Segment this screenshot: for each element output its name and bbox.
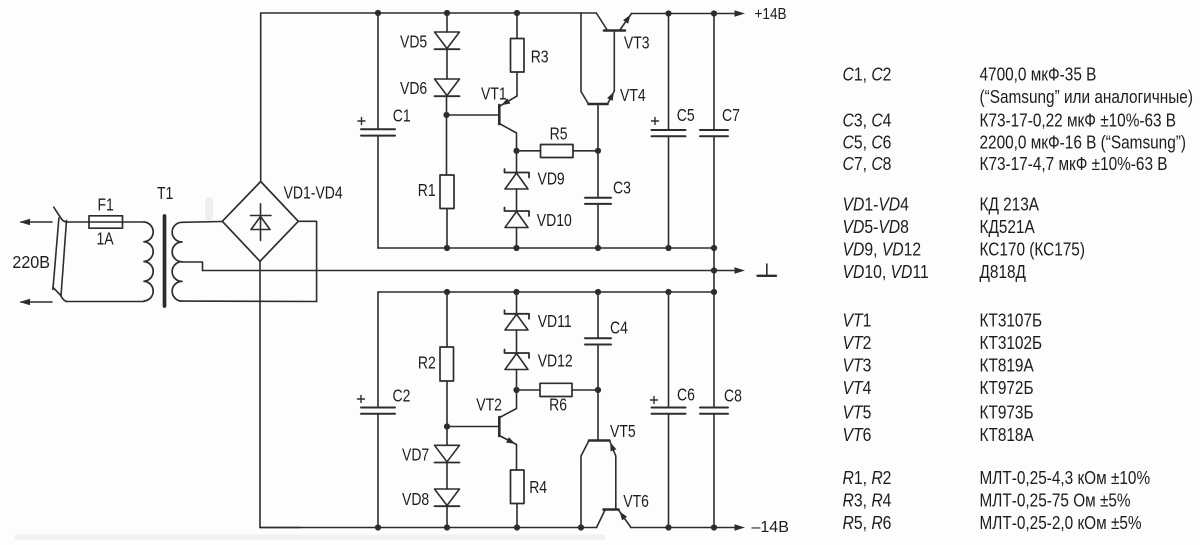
svg-text:F1: F1 — [98, 196, 114, 215]
wire link rail to mid rail — [713, 248, 715, 292]
svg-text:VT3: VT3 — [843, 354, 872, 376]
label VD7 — [402, 446, 429, 465]
node C2 bottom rail — [375, 524, 381, 530]
label VD5 — [400, 33, 427, 52]
diode VD7 — [435, 427, 460, 490]
svg-text:VD10: VD10 — [537, 212, 572, 231]
svg-text:VT5: VT5 — [843, 401, 872, 423]
label 1A — [97, 230, 114, 249]
svg-text:VD6: VD6 — [400, 80, 427, 99]
svg-text:(“Samsung” или аналогичные): (“Samsung” или аналогичные) — [980, 87, 1193, 108]
diode VD8 — [435, 489, 460, 528]
node C8 top rail — [711, 289, 717, 295]
svg-text:2200,0 мкФ-16 В (“Samsung”): 2200,0 мкФ-16 В (“Samsung”) — [980, 132, 1186, 153]
svg-text:R3, R4: R3, R4 — [843, 489, 892, 511]
transistor VT2 — [447, 390, 517, 470]
mains plug socket top contact — [54, 207, 67, 222]
resistor R3 — [511, 13, 525, 96]
resistor R2 — [440, 292, 454, 427]
label VT4 — [620, 87, 646, 106]
svg-text:МЛТ-0,25-75 Ом ±5%: МЛТ-0,25-75 Ом ±5% — [980, 490, 1131, 511]
wire bridge right corner to secondary bottom — [298, 221, 316, 301]
node C4 top rail — [595, 289, 601, 295]
label R2 — [418, 354, 436, 373]
mains plug pin bottom arrow — [20, 299, 53, 305]
label VD9 — [538, 170, 565, 189]
transistor VT4 — [581, 13, 614, 151]
node R6 right / C4 bottom / VT5 base — [595, 387, 601, 393]
label VT1 — [481, 85, 507, 104]
wire plug to fuse — [66, 221, 89, 223]
svg-text:КТ972Б: КТ972Б — [980, 378, 1034, 399]
capacitor C8 — [700, 292, 728, 528]
svg-text:VD7: VD7 — [402, 446, 429, 465]
mains plug socket bottom contact — [53, 287, 67, 301]
mains plug body line right — [61, 221, 67, 297]
label VT2 — [476, 396, 502, 415]
svg-text:R1: R1 — [418, 182, 436, 201]
capacitor C2 — [358, 292, 396, 528]
svg-text:VT4: VT4 — [843, 377, 872, 399]
output arrow -14V — [735, 524, 746, 530]
svg-text:КС170 (КС175): КС170 (КС175) — [980, 239, 1085, 260]
zener VD12 — [505, 350, 530, 391]
svg-text:КТ819А: КТ819А — [980, 355, 1035, 376]
svg-text:VT1: VT1 — [843, 309, 872, 331]
parts list value column — [980, 64, 1193, 533]
wire mid rail common — [203, 270, 738, 272]
svg-text:VD12: VD12 — [538, 352, 573, 371]
fuse F1 — [89, 216, 123, 228]
parts list designator column — [843, 63, 929, 533]
label 220V input — [12, 252, 50, 272]
svg-text:VD10, VD11: VD10, VD11 — [843, 261, 929, 283]
svg-text:С8: С8 — [724, 387, 742, 406]
wire fuse to primary — [123, 221, 145, 223]
node VT1 collector / R5 left / VD9 top — [513, 148, 519, 154]
svg-text:VD8: VD8 — [402, 491, 429, 510]
wire secondary center tap — [182, 262, 203, 271]
label C4 — [610, 319, 628, 338]
node VT1 base / R1 top — [443, 112, 449, 118]
transistor VT6 — [597, 510, 632, 528]
svg-text:Т1: Т1 — [157, 185, 173, 204]
node C5 top — [665, 10, 671, 16]
resistor R5 — [517, 145, 599, 158]
label C6 — [677, 386, 695, 405]
resistor R4 — [511, 470, 525, 528]
node VD12 bottom / R6 left / VT2 collector — [513, 387, 519, 393]
label R4 — [529, 479, 547, 498]
label VD6 — [400, 80, 427, 99]
svg-text:С5: С5 — [677, 107, 695, 126]
svg-text:1А: 1А — [97, 230, 114, 249]
node C8 bottom rail — [711, 524, 717, 530]
svg-text:VD1-VD4: VD1-VD4 — [284, 184, 343, 203]
capacitor C6 — [651, 292, 686, 528]
svg-text:МЛТ-0,25-4,3 кОм ±10%: МЛТ-0,25-4,3 кОм ±10% — [980, 468, 1151, 489]
svg-text:R4: R4 — [529, 479, 547, 498]
label C2 — [393, 387, 411, 406]
svg-text:VT4: VT4 — [620, 87, 646, 106]
label -14V — [752, 519, 789, 536]
bridge rectifier VD1-VD4 diamond — [222, 182, 298, 262]
svg-text:VT6: VT6 — [623, 493, 649, 512]
svg-text:R3: R3 — [531, 48, 549, 67]
transformer T1 secondary winding — [172, 222, 182, 301]
label C3 — [613, 179, 631, 198]
node C5 bottom rail — [665, 245, 671, 251]
label R6 — [549, 396, 567, 415]
label VD8 — [402, 491, 429, 510]
svg-text:VD9, VD12: VD9, VD12 — [843, 238, 922, 260]
svg-text:VD5: VD5 — [400, 33, 427, 52]
svg-text:C5, C6: C5, C6 — [843, 131, 892, 153]
node VD11 top rail — [513, 289, 519, 295]
svg-text:220В: 220В — [12, 252, 50, 272]
svg-text:КД 213А: КД 213А — [980, 194, 1040, 215]
label +14V — [755, 6, 787, 23]
svg-text:С7: С7 — [722, 107, 740, 126]
transistor VT5 — [581, 390, 616, 528]
wire plug to primary bottom — [66, 301, 144, 303]
node mid rail C7 column — [711, 267, 717, 273]
wire top raw rail — [261, 12, 597, 14]
node C7 top — [711, 10, 717, 16]
node R1 bottom rail — [444, 245, 450, 251]
label C5 — [677, 107, 695, 126]
label VD1-VD4 — [284, 184, 343, 203]
node VT5 collector rail — [578, 524, 584, 530]
wire upper block bottom rail — [378, 247, 714, 249]
label VD10 — [537, 212, 572, 231]
svg-text:С2: С2 — [393, 387, 411, 406]
svg-text:VD9: VD9 — [538, 170, 565, 189]
wire lower block top rail — [378, 291, 714, 293]
svg-text:VT2: VT2 — [843, 332, 872, 354]
svg-text:+14В: +14В — [755, 6, 787, 23]
svg-text:С3: С3 — [613, 179, 631, 198]
svg-text:КТ3107Б: КТ3107Б — [980, 310, 1043, 331]
svg-text:R1, R2: R1, R2 — [843, 467, 892, 489]
label R5 — [550, 125, 568, 144]
label R1 — [418, 182, 436, 201]
capacitor C1 — [358, 13, 395, 248]
transistor VT1 — [447, 96, 518, 151]
transistor VT3 — [596, 13, 631, 91]
svg-text:R6: R6 — [549, 396, 567, 415]
transformer T1 core — [163, 216, 167, 306]
wire secondary top lead to bridge — [182, 221, 222, 224]
svg-text:КТ973Б: КТ973Б — [980, 402, 1034, 423]
output arrow +14V — [735, 10, 746, 16]
label F1 — [98, 196, 114, 215]
diode VD5 — [435, 13, 460, 79]
node R5 right / VT4 base / C3 top — [595, 148, 601, 154]
capacitor C3 — [585, 151, 611, 248]
mains plug pin top arrow — [20, 219, 53, 225]
node R2 top rail — [444, 289, 450, 295]
svg-text:К73-17-0,22 мкФ ±10%-63 В: К73-17-0,22 мкФ ±10%-63 В — [980, 110, 1177, 131]
wire secondary bottom lead — [182, 300, 317, 302]
resistor R6 — [517, 383, 599, 396]
svg-text:С6: С6 — [677, 386, 695, 405]
svg-text:VD1-VD4: VD1-VD4 — [843, 193, 910, 215]
svg-text:C7, C8: C7, C8 — [843, 153, 892, 175]
capacitor C5 — [652, 14, 686, 249]
node R4 bottom rail — [514, 524, 520, 530]
svg-text:R5, R6: R5, R6 — [843, 512, 892, 534]
svg-text:4700,0 мкФ-35 В: 4700,0 мкФ-35 В — [980, 64, 1097, 85]
svg-text:C1, C2: C1, C2 — [843, 63, 892, 85]
bridge inner diode symbol — [251, 204, 272, 241]
node VD8 bottom rail — [444, 524, 450, 530]
node C1 top — [375, 10, 381, 16]
node VD10 bottom rail — [513, 245, 519, 251]
node C7 bottom rail — [711, 245, 717, 251]
node C3 bottom rail — [595, 245, 601, 251]
diode VD6 — [435, 79, 460, 115]
scan artifact near bridge — [205, 197, 213, 221]
transformer T1 primary winding — [144, 222, 153, 301]
svg-text:VT6: VT6 — [843, 424, 872, 446]
label C7 — [722, 107, 740, 126]
label VD12 — [538, 352, 573, 371]
zener VD10 — [505, 208, 530, 249]
label VD11 — [538, 313, 572, 332]
svg-text:КД521А: КД521А — [980, 217, 1036, 238]
svg-text:VD11: VD11 — [538, 313, 572, 332]
wire bottom output rail — [631, 527, 737, 529]
svg-text:КТ3102Б: КТ3102Б — [980, 333, 1043, 354]
svg-text:–14В: –14В — [752, 519, 789, 536]
svg-text:С4: С4 — [610, 319, 628, 338]
zener VD9 — [505, 151, 530, 211]
resistor R1 — [440, 115, 454, 248]
capacitor C7 — [700, 14, 728, 249]
svg-text:VD5-VD8: VD5-VD8 — [843, 216, 909, 238]
node C6 bottom rail — [665, 524, 671, 530]
svg-text:R5: R5 — [550, 125, 568, 144]
svg-text:C3, C4: C3, C4 — [843, 109, 892, 131]
svg-text:VT3: VT3 — [624, 34, 650, 53]
node R3 top — [514, 10, 520, 16]
ground symbol — [758, 264, 777, 276]
label C8 — [724, 387, 742, 406]
capacitor C4 — [585, 292, 611, 390]
label VT5 — [610, 423, 636, 442]
wire bridge minus output down — [260, 261, 300, 527]
wire bridge plus output to top rail — [260, 13, 262, 182]
svg-text:VT1: VT1 — [481, 85, 507, 104]
svg-text:VT5: VT5 — [610, 423, 636, 442]
wire bottom raw rail — [260, 527, 597, 529]
node VD5 top — [444, 10, 450, 16]
svg-text:С1: С1 — [393, 107, 411, 126]
svg-text:МЛТ-0,25-2,0 кОм ±5%: МЛТ-0,25-2,0 кОм ±5% — [980, 513, 1142, 534]
svg-text:КТ818А: КТ818А — [980, 425, 1035, 446]
mid rail arrow — [735, 267, 746, 273]
label T1 — [157, 185, 173, 204]
mains plug body line left — [53, 218, 59, 290]
zener VD11 — [505, 292, 530, 353]
label C1 — [393, 107, 411, 126]
label VT3 — [624, 34, 650, 53]
scan artifact bottom band — [15, 535, 605, 541]
node C6 top rail — [665, 289, 671, 295]
svg-text:VT2: VT2 — [476, 396, 502, 415]
label VT6 — [623, 493, 649, 512]
label R3 — [531, 48, 549, 67]
svg-text:Д818Д: Д818Д — [980, 262, 1027, 283]
wire top output rail — [632, 13, 738, 15]
svg-text:R2: R2 — [418, 354, 436, 373]
svg-text:К73-17-4,7 мкФ ±10%-63 В: К73-17-4,7 мкФ ±10%-63 В — [980, 154, 1168, 175]
node R2 bottom / VT2 base / VD7 top — [444, 423, 450, 429]
